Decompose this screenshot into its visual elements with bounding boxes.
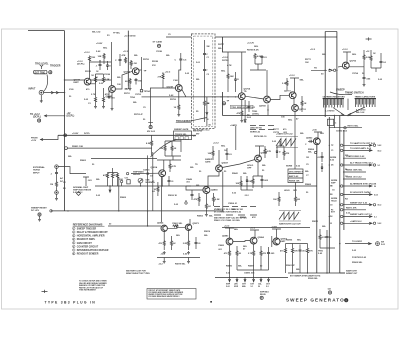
svg-text:R5868 10K: R5868 10K (289, 180, 300, 182)
output row 5 (343, 170, 366, 172)
svg-text:C5882: C5882 (218, 245, 225, 247)
wire: right vertical bus mid E (343, 130, 345, 230)
wire: vline x334.4 (333, 116, 335, 128)
svg-text:47K: 47K (103, 174, 107, 177)
label cluster right of Q5843 (247, 165, 254, 170)
resistor R5870 (294, 196, 300, 206)
svg-text:+12V: +12V (31, 140, 37, 142)
svg-text:SWEEP: SWEEP (336, 89, 345, 92)
svg-text:TRIG SENS LEVEL: TRIG SENS LEVEL (231, 107, 250, 109)
external horiz lower terminal (55, 191, 59, 195)
label Q5774 (299, 108, 306, 111)
wire: Q5784 base left (115, 71, 133, 89)
labels under chains (226, 266, 263, 275)
terminal sweep reset (50, 210, 52, 212)
transistor Q5747 (175, 85, 182, 92)
label under Q5852 (306, 148, 315, 166)
leader curve from label (191, 118, 207, 121)
capacitor C5855 (317, 152, 324, 162)
label Q5758 (259, 106, 266, 108)
diode D5856 (321, 163, 323, 172)
connector dashes row 1 (214, 206, 256, 208)
svg-text:15K: 15K (91, 57, 95, 59)
diode D5765 (234, 72, 239, 92)
resistor R5747 top (98, 53, 106, 64)
label above Q5894 (271, 227, 278, 229)
label NORMAL DECOUPLE (73, 186, 92, 194)
wire: vline x222.8 under Q5837 (222, 172, 224, 211)
svg-text:TD: TD (314, 68, 317, 70)
resistor R5899 (319, 229, 326, 248)
node on bus at x65 (64, 134, 67, 137)
resistor R5877 (183, 240, 190, 250)
label below box (193, 131, 203, 136)
label cluster below Q5837 (195, 159, 227, 173)
diode D5742 (106, 61, 111, 70)
wire bar above (277, 141, 284, 146)
leader curve to timing switch (330, 92, 352, 95)
svg-text:50: 50 (258, 286, 260, 288)
wire: sweep reset horizontal bus (51, 210, 215, 212)
wire: Q5754 emitter down (241, 99, 243, 110)
svg-text:5-62: 5-62 (378, 223, 382, 225)
svg-text:8: 8 (73, 254, 74, 256)
label +100V (72, 133, 91, 135)
transistor Q5793 (342, 62, 349, 69)
label +12.2 above (289, 75, 304, 82)
wire terminal stub (121, 183, 123, 186)
label row 3 (214, 217, 247, 223)
label above Q5883 (224, 226, 239, 232)
resistor R5846 (248, 176, 255, 188)
label pot (146, 180, 156, 185)
label Q5837 (222, 163, 229, 165)
capacitor C5769 (248, 101, 256, 112)
svg-text:+12.2: +12.2 (213, 143, 219, 145)
svg-text:D2: D2 (330, 216, 332, 218)
legend header REFERENCE DIAGRAMS (73, 223, 103, 226)
svg-text:FROM: FROM (31, 138, 38, 140)
oplus ST CASE (157, 44, 160, 47)
svg-text:Q5850: Q5850 (211, 190, 218, 192)
svg-text:+12.2: +12.2 (342, 49, 348, 51)
label cluster hold-off (232, 172, 249, 197)
label above wafer 1 (323, 96, 346, 99)
wire: terminal to right network (58, 167, 86, 174)
wire: vertical bus right pair B (336, 32, 338, 99)
capacitor C5781 right edge (380, 53, 387, 68)
capacitor C5795 (363, 76, 372, 83)
label cluster right of Q5758 drop (273, 128, 288, 134)
resistor trio R5805 (103, 173, 109, 187)
text cluster right of box (221, 57, 232, 73)
registration mark top right (366, 37, 372, 40)
svg-text:SWEEP GATE: SWEEP GATE (174, 128, 189, 131)
wire: Q5843 collector up (255, 146, 264, 156)
output terminal circle (376, 242, 380, 246)
resistor R5746 (102, 88, 109, 103)
svg-text:HOLD: HOLD (284, 190, 290, 192)
capacitor C5853 at base (305, 140, 314, 146)
svg-text:GEN CIRCUIT: GEN CIRCUIT (77, 243, 93, 245)
svg-text:2.7K: 2.7K (248, 253, 253, 255)
label cluster mid (95, 77, 128, 91)
svg-text:THIS INSTRUMENT: THIS INSTRUMENT (79, 290, 97, 292)
resistor R5768 (237, 110, 243, 119)
svg-text:C2: C2 (207, 74, 209, 76)
registration dot bottom center (210, 301, 212, 303)
output row 7 (343, 183, 377, 187)
label TO HORIZ above output (352, 241, 363, 243)
label +GATE (230, 124, 237, 127)
diode arrow to timing bus (311, 69, 333, 72)
svg-text:TRIGGER: TRIGGER (50, 66, 61, 68)
resistor R5745 (91, 84, 97, 103)
wire: Q5747 emitter down (178, 91, 180, 104)
svg-text:NORMAL SWP: NORMAL SWP (73, 186, 89, 189)
label Q5864 (157, 222, 164, 225)
svg-text:+12.2: +12.2 (310, 49, 316, 51)
svg-text:27K: 27K (152, 65, 156, 67)
oplus TP5754 (222, 101, 229, 105)
svg-text:SW: SW (207, 46, 210, 48)
svg-text:TD5810 SEL: TD5810 SEL (175, 134, 187, 136)
capacitor C5847 (261, 176, 269, 188)
wire: cluster bars (165, 141, 181, 160)
label TO +12.2V (30, 114, 41, 119)
junction dots mid bus (109, 185, 163, 186)
svg-text:EXTERNAL: EXTERNAL (33, 166, 45, 169)
svg-text:10K: 10K (236, 183, 240, 185)
wire: right vertical bus mid D (339, 116, 341, 274)
svg-text:Q5758: Q5758 (259, 106, 266, 108)
junction dots G2 (178, 96, 205, 97)
label TD 5-62 (247, 115, 252, 120)
label above Q5884 (250, 228, 256, 230)
svg-text:R5791 SEL: R5791 SEL (348, 126, 359, 128)
svg-text:INPUT: INPUT (29, 89, 36, 91)
wire Q5745 emitter down (111, 92, 113, 107)
legend row 5 (73, 242, 93, 245)
external horiz upper terminal (55, 165, 59, 169)
legend row 4 (73, 238, 96, 241)
ground under R5877 (187, 251, 190, 254)
svg-text:5: 5 (73, 243, 74, 245)
svg-text:3: 3 (73, 236, 74, 238)
grounds under bus (163, 258, 166, 264)
component box right (125, 178, 131, 184)
label +12.2 left (77, 61, 85, 66)
junction on reset bus (67, 210, 148, 211)
resistor R5869 (273, 192, 280, 206)
wire: Q5884 emitter down (253, 244, 255, 250)
wire from label to bus (40, 135, 58, 140)
svg-text:Q5793: Q5793 (350, 61, 357, 63)
sawtooth waveform glyph upper (276, 137, 298, 148)
svg-text:EMIT: EMIT (74, 82, 80, 84)
svg-text:R5905 SEL: R5905 SEL (308, 278, 319, 280)
label speckle row under Q5850 (197, 209, 221, 218)
svg-text:R5857: R5857 (240, 217, 247, 219)
labels right of sweep output (352, 257, 367, 264)
svg-text:DELAY & TRIGGER CIRCUIT: DELAY & TRIGGER CIRCUIT (77, 231, 108, 234)
svg-text:Q5814: Q5814 (151, 166, 158, 169)
wire: hline y127.7 (329, 127, 362, 129)
wire y144.8 stub (67, 147, 151, 149)
text cluster top right of box 2 (247, 43, 259, 52)
labels in dash table (250, 127, 266, 138)
wire right edge bar (371, 68, 381, 72)
wire: sawtooth bus drop (340, 272, 345, 274)
svg-text:10K: 10K (98, 56, 102, 58)
svg-text:1: 1 (73, 228, 74, 230)
wire: Q5747 base drop to MV terminal (150, 88, 152, 122)
wire: bus to Q5743 base (65, 79, 85, 81)
svg-text:NORM: NORM (286, 166, 292, 168)
arrowheads at convergence (341, 113, 351, 115)
capacitor C5761 inside box (203, 68, 208, 97)
svg-text:R5802: R5802 (80, 160, 87, 162)
capacitor C5897 (299, 245, 307, 261)
junction dot x222.8 (222, 210, 223, 211)
arrow on vline x206.9 (206, 112, 208, 115)
wire: vertical x222.5 from top bus (222, 37, 224, 116)
svg-text:5-62: 5-62 (374, 194, 378, 196)
diode D5842 (246, 176, 248, 190)
svg-text:R5751: R5751 (124, 93, 131, 95)
svg-text:TYPE 3B3 PLUG IN: TYPE 3B3 PLUG IN (45, 300, 97, 304)
wire: +12 bus above output transistors (222, 227, 310, 229)
svg-text:R5908 SEL: R5908 SEL (352, 262, 363, 264)
wire: Q5743 collector up (89, 62, 91, 79)
svg-text:SEL: SEL (300, 80, 305, 82)
svg-text:4.7K: 4.7K (267, 150, 272, 153)
label between pairs (243, 246, 248, 251)
svg-text:+100V: +100V (271, 227, 278, 229)
relay box (288, 169, 303, 183)
wire: vertical x141.5 (141, 57, 143, 90)
resistor trio R5807 (116, 173, 123, 187)
antenna symbol (40, 65, 43, 69)
svg-text:R5872: R5872 (312, 221, 319, 223)
svg-text:Q5774: Q5774 (299, 108, 306, 111)
wire: connector arc from label box (44, 75, 48, 92)
resistor R5819 on x157.9 (154, 182, 159, 196)
legend row 3 (73, 234, 105, 237)
svg-text:7: 7 (73, 250, 74, 252)
svg-text:5-62: 5-62 (226, 286, 230, 288)
label mid rows right (345, 155, 351, 215)
wire: Q5754 up (241, 52, 243, 93)
junction dots on y96.9 bus (220, 96, 236, 97)
resistor R5898 (306, 244, 313, 261)
transistor Q5754 (238, 93, 245, 100)
transistor Q5864 (161, 225, 167, 231)
svg-text:R5895: R5895 (286, 240, 293, 242)
wire: Q5884 collector up (250, 230, 259, 238)
wire: Q5864 emitter down (163, 232, 165, 241)
resistor R5896 (291, 244, 298, 261)
wire: vline x206.9 (206, 97, 208, 126)
junction dots on left bus (64, 79, 65, 116)
svg-text:DC LEV: DC LEV (31, 210, 40, 212)
svg-text:Q5883: Q5883 (222, 236, 229, 238)
svg-text:SEL 5-62: SEL 5-62 (92, 32, 101, 34)
label ST CASE (153, 41, 163, 44)
capacitor C5900 (326, 230, 333, 248)
small text above oplus (260, 291, 269, 296)
svg-text:Q5837: Q5837 (222, 163, 229, 165)
svg-text:-12.2: -12.2 (160, 254, 166, 256)
terminal row x186 (185, 200, 187, 204)
wire: Q5814 emitter drop (161, 176, 163, 222)
svg-text:TD: TD (244, 91, 247, 93)
transistor Q5745 (109, 86, 116, 93)
legend header underline (73, 225, 105, 227)
svg-text:SWEEP TRIGGER: SWEEP TRIGGER (77, 228, 97, 230)
svg-text:SAWTOOTH 5-62 OUT: SAWTOOTH 5-62 OUT (279, 223, 301, 226)
svg-text:OFF: OFF (247, 168, 252, 170)
svg-text:1.5K: 1.5K (248, 181, 253, 183)
wire: vline x245.1 below Q5754 (244, 100, 246, 120)
capacitor T into mid bus (83, 177, 93, 186)
resistor R5756 below Q5747 (174, 104, 180, 113)
svg-text:1K: 1K (174, 107, 177, 109)
dark label TRIGGERED MODE (176, 120, 192, 123)
svg-text:SWEEP OUT 5-62: SWEEP OUT 5-62 (350, 202, 368, 204)
diode D5779 (276, 146, 281, 158)
legend row 2 (73, 231, 109, 234)
svg-text:2.2K: 2.2K (282, 83, 287, 85)
svg-text:R5790 SEL 50: R5790 SEL 50 (254, 136, 266, 138)
svg-text:C5889 .005: C5889 .005 (244, 273, 255, 275)
wire: top bus left of dashed box (166, 36, 191, 38)
svg-text:REGIS: REGIS (260, 294, 266, 296)
junction dots on output bus (292, 272, 328, 273)
junction dot Q5758 (267, 109, 268, 110)
wire bar y270 (237, 269, 269, 271)
wire pot to bus (140, 183, 142, 186)
terminal on mid bus (120, 180, 122, 182)
svg-text:D5757: D5757 (218, 44, 225, 46)
svg-text:SEL: SEL (254, 46, 259, 48)
wire: Q5754 to Q5758 (245, 70, 267, 99)
svg-text:HOLD: HOLD (331, 200, 337, 202)
output row 8 (343, 191, 372, 195)
svg-text:R8: R8 (330, 194, 332, 196)
transistor Q5894 (273, 238, 280, 245)
junction dots y115.5 (325, 115, 349, 116)
wire: Q5743 emitter right (91, 77, 112, 84)
output row 9 (343, 202, 372, 205)
svg-text:ALT TRACE SYNC 50-2: ALT TRACE SYNC 50-2 (350, 162, 374, 165)
wire: vline x152.8 (152, 152, 154, 211)
label Q5793 (350, 61, 357, 63)
wire: Q5883 base feed from above (225, 228, 234, 238)
svg-text:C1: C1 (207, 57, 209, 59)
svg-text:R5878 SEL: R5878 SEL (175, 264, 186, 266)
transistor Q5884 (250, 237, 257, 244)
resistor R5751 below Q5784 (125, 78, 131, 87)
svg-text:SEL: SEL (103, 48, 108, 50)
wire: vline x235.8 (235, 126, 237, 150)
output row 10 (343, 207, 366, 210)
terminal after diode (333, 69, 335, 71)
svg-text:TIMING SWITCH: TIMING SWITCH (345, 92, 364, 95)
resistor R5886 (236, 246, 242, 262)
caution note box (147, 289, 196, 300)
label right of terminal (381, 242, 385, 246)
transistor Q5873 (185, 224, 191, 230)
svg-text:R5743: R5743 (85, 70, 92, 73)
capacitor C5818 (168, 176, 175, 186)
oplus 143 (328, 291, 331, 294)
svg-text:2: 2 (73, 232, 74, 234)
svg-text:R5865 100K SEL: R5865 100K SEL (346, 170, 363, 172)
svg-text:SWP MAG REGIS: SWP MAG REGIS (73, 189, 92, 192)
svg-text:C9: C9 (330, 204, 332, 206)
resistor R5812 (160, 141, 167, 156)
wire: top bus links (325, 31, 337, 33)
wire: vertical bus right pair A (324, 32, 326, 118)
svg-text:REFERENCE DIAGRAMS: REFERENCE DIAGRAMS (73, 223, 103, 226)
ground below connector (40, 95, 43, 103)
svg-text:+100V: +100V (72, 133, 79, 135)
wire: bus y257.5 under Q5864 (157, 257, 200, 259)
label MV below oplus (147, 131, 156, 133)
wire: chains to lower bus (230, 262, 269, 277)
svg-text:SWEEP GATE OUT 5-1: SWEEP GATE OUT 5-1 (350, 213, 373, 216)
svg-text:1K: 1K (91, 75, 94, 77)
transistor Q5852 miller (313, 138, 320, 145)
label above waveform (276, 133, 293, 136)
label TP (144, 71, 151, 94)
wire: Q5784 collector right to x141.5 (139, 69, 142, 71)
svg-text:LEVEL: LEVEL (252, 114, 260, 116)
legend row 1 (73, 227, 97, 230)
legend row 7 (73, 249, 109, 252)
resistor R5749 (122, 54, 127, 63)
wire: Q5758 to Q5773 (270, 95, 290, 99)
capacitor C5752 (135, 78, 143, 85)
wire: Q5850 emitter down (205, 194, 207, 204)
transistor Q5743 (84, 78, 91, 85)
wire: Q5814 collector up (157, 160, 181, 170)
svg-text:4.7K: 4.7K (172, 165, 177, 168)
label 50 next to vline (209, 125, 212, 127)
resistor R5755 (158, 72, 172, 80)
wire: x128 bus down to Q cluster (125, 86, 128, 89)
transistor Q5883 (226, 238, 233, 245)
junction dots bottom bus (229, 277, 254, 278)
ground under R5768 (240, 119, 243, 122)
svg-text:10K: 10K (273, 199, 277, 201)
wire: Q5843 emitter down (253, 162, 263, 176)
svg-text:Q5773: Q5773 (284, 91, 291, 93)
wire: top-left horizontal feed (28, 30, 65, 32)
label under connector row (214, 209, 243, 214)
wire: network chains to output bus (286, 252, 328, 273)
svg-text:143: 143 (328, 288, 331, 291)
label SEE NOTES (126, 270, 150, 275)
svg-text:ST CASE: ST CASE (153, 41, 163, 44)
wire: Q5773 collector up (290, 78, 299, 93)
resistor R5888 (260, 246, 267, 262)
svg-text:5-62: 5-62 (381, 244, 385, 246)
resistor R5844 (264, 146, 272, 158)
resistor R5895 (280, 244, 287, 261)
label Q5873 (193, 223, 200, 225)
